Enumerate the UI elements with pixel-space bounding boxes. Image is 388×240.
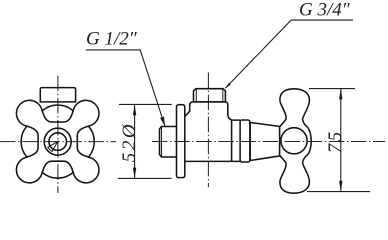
leader G 3/4 underline — [225, 20, 353, 88]
hub wedge mark — [48, 142, 58, 152]
body right edge — [231, 120, 233, 161]
arrow down — [133, 168, 136, 179]
bottom bulb + neck — [280, 155, 310, 194]
top bulb + neck — [280, 89, 310, 128]
centerline vertical G3/4 — [207, 73, 209, 188]
svg-text:52Ø: 52Ø — [119, 122, 140, 163]
packing nut — [240, 120, 250, 162]
ext line top — [119, 103, 172, 105]
inlet stub thread root line — [161, 127, 163, 158]
leader G 3/4 arrow — [225, 83, 230, 89]
body bottom + boss bottom — [185, 160, 240, 162]
leader G 1/2 underline — [86, 50, 165, 126]
svg-text:G 1/2″: G 1/2″ — [86, 28, 138, 49]
svg-text:75: 75 — [325, 129, 346, 153]
leader G 1/2 arrow — [160, 117, 165, 127]
svg-text:G 3/4″: G 3/4″ — [299, 0, 351, 20]
centerline horizontal left view — [0, 141, 116, 143]
ext line bottom — [118, 177, 172, 179]
body outline top — [185, 102, 240, 120]
hub outer circle — [44, 128, 71, 155]
arrow down — [339, 181, 342, 192]
arrow up — [339, 89, 342, 100]
arrow up — [133, 104, 136, 115]
right handle bowtie — [280, 89, 311, 193]
thread root lines — [195, 89, 197, 102]
cross handle front view — [16, 100, 99, 183]
cone spindle housing — [250, 123, 279, 161]
dim line — [340, 89, 342, 192]
bonnet top rect left view — [40, 88, 75, 102]
ext line bottom — [307, 191, 370, 193]
centerline vertical left view — [57, 76, 59, 193]
dim line — [134, 104, 136, 178]
ext line top — [309, 88, 355, 90]
hub inner circle — [49, 133, 67, 151]
cap lens — [308, 128, 311, 155]
inlet stub G1/2 — [160, 127, 177, 158]
centerline horizontal side view — [152, 141, 385, 143]
G3/4 thread block — [194, 89, 226, 102]
wall flange — [177, 105, 185, 178]
hub circle side view — [281, 128, 307, 154]
